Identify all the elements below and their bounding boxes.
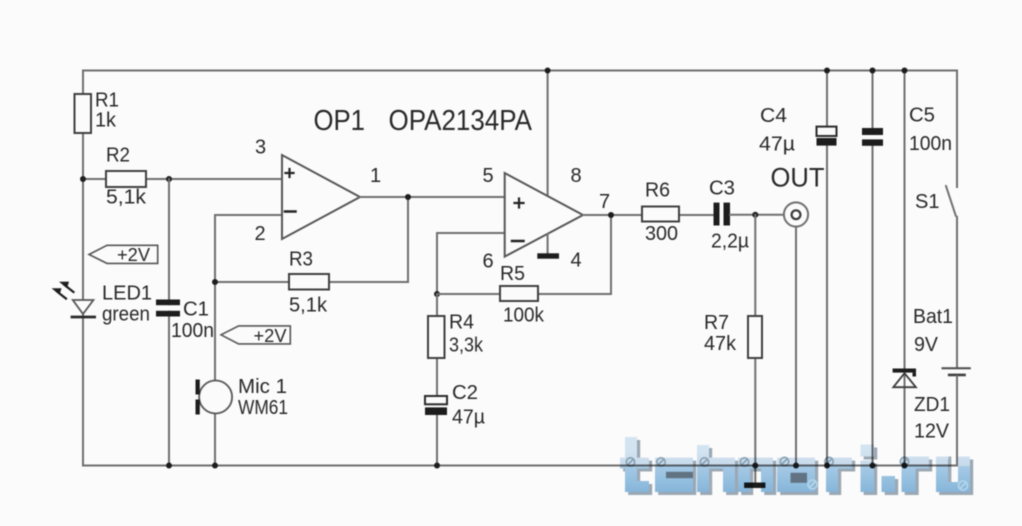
wire right vertical lower battery to rail — [956, 376, 958, 465]
svg-text:C1: C1 — [183, 299, 209, 321]
wire right vertical upper to S1 — [956, 71, 958, 188]
wire op2 pin8 supply — [547, 71, 549, 197]
svg-text:12V: 12V — [914, 421, 950, 443]
node C3 junction — [752, 212, 758, 218]
svg-text:3: 3 — [255, 137, 266, 159]
capacitor C5 — [862, 105, 952, 156]
resistor R2 — [106, 145, 147, 209]
svg-text:1: 1 — [370, 165, 381, 187]
svg-text:Bat1: Bat1 — [913, 306, 953, 328]
svg-text:7: 7 — [599, 191, 610, 213]
capacitor C4 polarized — [759, 105, 837, 156]
svg-text:47µ: 47µ — [759, 134, 795, 156]
svg-text:9V: 9V — [914, 334, 939, 356]
wire C1 branch vertical — [168, 179, 170, 466]
wire top rail — [83, 70, 957, 72]
svg-text:2: 2 — [255, 223, 266, 245]
wire op1 minus vertical (mic line) — [214, 215, 216, 466]
svg-text:3,3k: 3,3k — [449, 335, 484, 357]
title OP1 OPA2134PA — [314, 105, 533, 137]
svg-text:C3: C3 — [709, 178, 735, 200]
node C4 top junction — [824, 68, 830, 74]
watermark tehnari.ru — [620, 437, 973, 495]
svg-text:300: 300 — [645, 223, 678, 245]
node C5 top junction — [870, 68, 876, 74]
svg-text:47µ: 47µ — [452, 407, 485, 429]
op-amp OP1 first half — [255, 137, 382, 246]
wire C3 to jack — [730, 214, 784, 216]
svg-text:2,2µ: 2,2µ — [711, 231, 749, 253]
node bottom rail ZD1 — [902, 463, 908, 469]
svg-text:OPA2134PA: OPA2134PA — [389, 105, 533, 137]
svg-text:100n: 100n — [171, 320, 214, 342]
svg-text:100k: 100k — [503, 305, 545, 327]
resistor R3 — [289, 249, 329, 317]
svg-text:R3: R3 — [289, 249, 313, 271]
ground op2 pin4 — [537, 234, 559, 259]
node ZD1 top junction — [902, 68, 908, 74]
node R2 left junction — [80, 176, 86, 182]
op-amp OP1 second half — [483, 165, 611, 273]
node bottom rail C1 — [166, 463, 172, 469]
capacitor C1 — [156, 299, 214, 343]
svg-text:OUT: OUT — [771, 163, 825, 193]
svg-text:C5: C5 — [909, 105, 935, 127]
node R3 left junction — [212, 279, 218, 285]
svg-text:ZD1: ZD1 — [914, 394, 950, 416]
svg-text:R2: R2 — [106, 145, 130, 167]
wire ZD1 branch — [904, 71, 906, 466]
wire op2 output row — [583, 214, 714, 216]
svg-text:R7: R7 — [704, 312, 729, 334]
svg-text:+2V: +2V — [117, 245, 150, 265]
svg-text:1k: 1k — [95, 110, 117, 132]
wire left vertical — [82, 71, 84, 466]
resistor R6 — [642, 180, 679, 246]
svg-text:100n: 100n — [909, 133, 952, 155]
zener ZD1 — [893, 369, 950, 443]
svg-text:6: 6 — [483, 251, 494, 273]
microphone Mic1 WM61 — [196, 376, 289, 419]
wire op1 output to op2 plus — [360, 196, 505, 198]
node bottom rail C4 — [824, 463, 830, 469]
LED LED1 green — [52, 282, 153, 326]
node pin7 junction — [608, 212, 614, 218]
resistor R5 — [500, 263, 545, 327]
wire bottom rail — [83, 465, 957, 467]
node R5 left junction — [434, 291, 440, 297]
svg-text:47k: 47k — [704, 333, 737, 355]
node op1 output junction — [405, 194, 411, 200]
output jack OUT — [771, 163, 825, 227]
+2V net label mic — [221, 326, 290, 346]
node bottom rail jack — [793, 463, 799, 469]
wire C4 branch — [826, 71, 828, 466]
node bottom rail mic — [212, 463, 218, 469]
node bottom rail R7 — [752, 463, 758, 469]
svg-text:C2: C2 — [452, 382, 478, 404]
svg-text:4: 4 — [571, 250, 582, 272]
+2V net label left — [89, 245, 158, 265]
wire op2 minus feedback — [437, 233, 505, 294]
svg-text:C4: C4 — [760, 105, 787, 127]
wire R2 row — [83, 178, 282, 180]
ground bottom rail marker — [744, 466, 765, 489]
svg-text:R1: R1 — [95, 90, 119, 112]
resistor R7 — [704, 312, 762, 358]
wire op1 minus input horizontal — [215, 214, 282, 216]
capacitor C3 — [709, 178, 749, 253]
node bottom rail C5 — [870, 463, 876, 469]
wire R4 branch — [436, 294, 438, 466]
svg-text:S1: S1 — [915, 191, 939, 213]
svg-text:5: 5 — [483, 165, 494, 187]
wire R7 branch — [754, 215, 756, 466]
node R2 right junction — [166, 176, 172, 182]
svg-text:5,1k: 5,1k — [106, 187, 147, 209]
resistor R1 — [75, 90, 120, 134]
svg-text:LED1: LED1 — [102, 283, 152, 305]
svg-text:OP1: OP1 — [314, 105, 366, 137]
svg-text:R6: R6 — [645, 180, 670, 202]
switch S1 — [915, 186, 956, 216]
svg-text:5,1k: 5,1k — [289, 295, 328, 317]
svg-text:8: 8 — [571, 165, 582, 187]
svg-text:R4: R4 — [449, 312, 474, 334]
node pin8 top rail junction — [545, 68, 551, 74]
wire R5 row — [437, 215, 611, 294]
wire C5 branch — [872, 71, 874, 466]
wire jack to bottom rail — [795, 227, 797, 466]
resistor R4 — [428, 312, 484, 359]
svg-text:+2V: +2V — [254, 326, 287, 346]
svg-text:WM61: WM61 — [238, 397, 288, 419]
battery Bat1 — [913, 306, 970, 375]
wire R3 feedback row — [215, 197, 408, 282]
node bottom rail C2 — [434, 463, 440, 469]
svg-text:R5: R5 — [500, 263, 525, 285]
wire right vertical middle S1 to battery — [956, 217, 958, 367]
svg-text:green: green — [102, 304, 150, 326]
svg-text:Mic 1: Mic 1 — [238, 376, 287, 398]
capacitor C2 polarized — [425, 382, 485, 429]
